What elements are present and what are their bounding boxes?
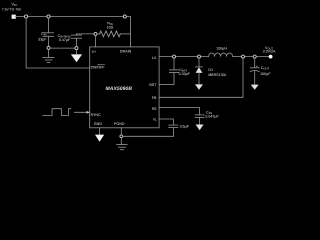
ground COUT triangle (251, 85, 259, 90)
node VOUT terminal (269, 55, 273, 59)
svg-text:VIN: VIN (11, 3, 16, 8)
wire ON/OFF drop (26, 18, 90, 68)
arrowhead SYNC (87, 111, 90, 114)
capacitor CBST (159, 58, 179, 84)
svg-text:SYNC: SYNC (91, 113, 102, 117)
junction PGND circle (120, 135, 123, 138)
wire PGND ground rail (123, 135, 174, 137)
svg-text:LX: LX (152, 56, 157, 60)
svg-text:0.47µF: 0.47µF (59, 38, 71, 42)
svg-text:7.5V TO 76V: 7.5V TO 76V (2, 8, 22, 12)
waveform SYNC pulse symbol (43, 109, 71, 116)
svg-text:10Ω: 10Ω (107, 26, 114, 30)
svg-text:GND: GND (94, 122, 103, 126)
svg-text:100µF: 100µF (260, 72, 271, 76)
capacitor CIN label (38, 32, 47, 41)
node VIN terminal (12, 15, 16, 19)
ground CBYPASS triangle (71, 50, 82, 63)
wire SS (159, 108, 200, 115)
wire FB feedback (159, 58, 243, 97)
svg-text:SS: SS (152, 107, 157, 111)
junction on rail for ON/OFF (25, 15, 28, 18)
pin label ON/OFF (91, 65, 106, 70)
diode D1 (196, 58, 203, 84)
op-amp U1 MAX5090B box (90, 47, 159, 128)
capacitor CBYPASS (71, 34, 81, 47)
svg-text:PGND: PGND (114, 122, 125, 126)
svg-text:+: + (256, 65, 258, 69)
junction output to COUT (253, 55, 256, 58)
capacitor CSS label (205, 110, 219, 118)
junction LX to D1 (198, 55, 201, 58)
capacitor CSS (195, 115, 204, 125)
capacitor COUT label (260, 66, 271, 76)
svg-text:COUT: COUT (261, 66, 270, 71)
capacitor COUT polarized (250, 58, 259, 85)
svg-text:MBRS130L: MBRS130L (208, 73, 226, 77)
wire DRAIN drop (130, 17, 132, 47)
junction CBYPASS ground (75, 47, 78, 50)
capacitor CIN (43, 18, 54, 46)
wire V+ stub (95, 35, 97, 47)
svg-text:VL: VL (153, 118, 157, 123)
svg-text:V+: V+ (92, 50, 97, 54)
ground CSS triangle (196, 125, 204, 131)
wire PGND drop (120, 128, 122, 135)
svg-text:D1: D1 (208, 68, 213, 72)
wire ground link CIN to CBYPASS (50, 47, 77, 49)
svg-text:100µH: 100µH (216, 46, 227, 50)
node B open circle on rail (123, 15, 126, 18)
ground CIN earth bars (43, 49, 54, 62)
wire SYNC input (74, 111, 89, 113)
capacitor CBYPASS label (58, 34, 71, 42)
wire VL (159, 119, 173, 125)
ground PGND earth bars (117, 138, 128, 150)
node CIN ground circle (47, 46, 50, 49)
node VOUT label (263, 46, 276, 54)
svg-text:MAX5090B: MAX5090B (106, 86, 133, 92)
svg-text:0.5µF: 0.5µF (180, 125, 190, 129)
svg-text:0.33µF: 0.33µF (179, 72, 191, 76)
junction on rail for CIN (47, 15, 50, 18)
svg-text:DRAIN: DRAIN (120, 49, 132, 53)
capacitor CBST label (179, 68, 191, 76)
svg-text:3.3V/2A: 3.3V/2A (263, 50, 276, 54)
svg-text:CIN: CIN (41, 32, 46, 37)
resistor RIN label (107, 22, 114, 30)
capacitor CVL (169, 125, 178, 136)
svg-text:BST: BST (149, 83, 157, 87)
ground D1 triangle (195, 84, 203, 89)
resistor RIN 10ohm (97, 31, 131, 37)
ground GND triangle (95, 135, 104, 142)
svg-text:0.047µF: 0.047µF (205, 115, 219, 119)
junction output to FB (242, 55, 245, 58)
svg-text:FB: FB (152, 96, 157, 100)
inductor L1 (209, 53, 269, 57)
diode D1 label (208, 68, 226, 77)
node A open circle (94, 32, 97, 35)
wire VIN rail (15, 16, 131, 18)
wire LX output (159, 56, 209, 58)
junction LX to CBST (173, 55, 176, 58)
wire GND pin drop (99, 128, 101, 135)
wire CBYPASS to node A (77, 33, 95, 35)
svg-text:ON/OFF: ON/OFF (91, 65, 106, 69)
svg-text:33µF: 33µF (38, 38, 47, 42)
